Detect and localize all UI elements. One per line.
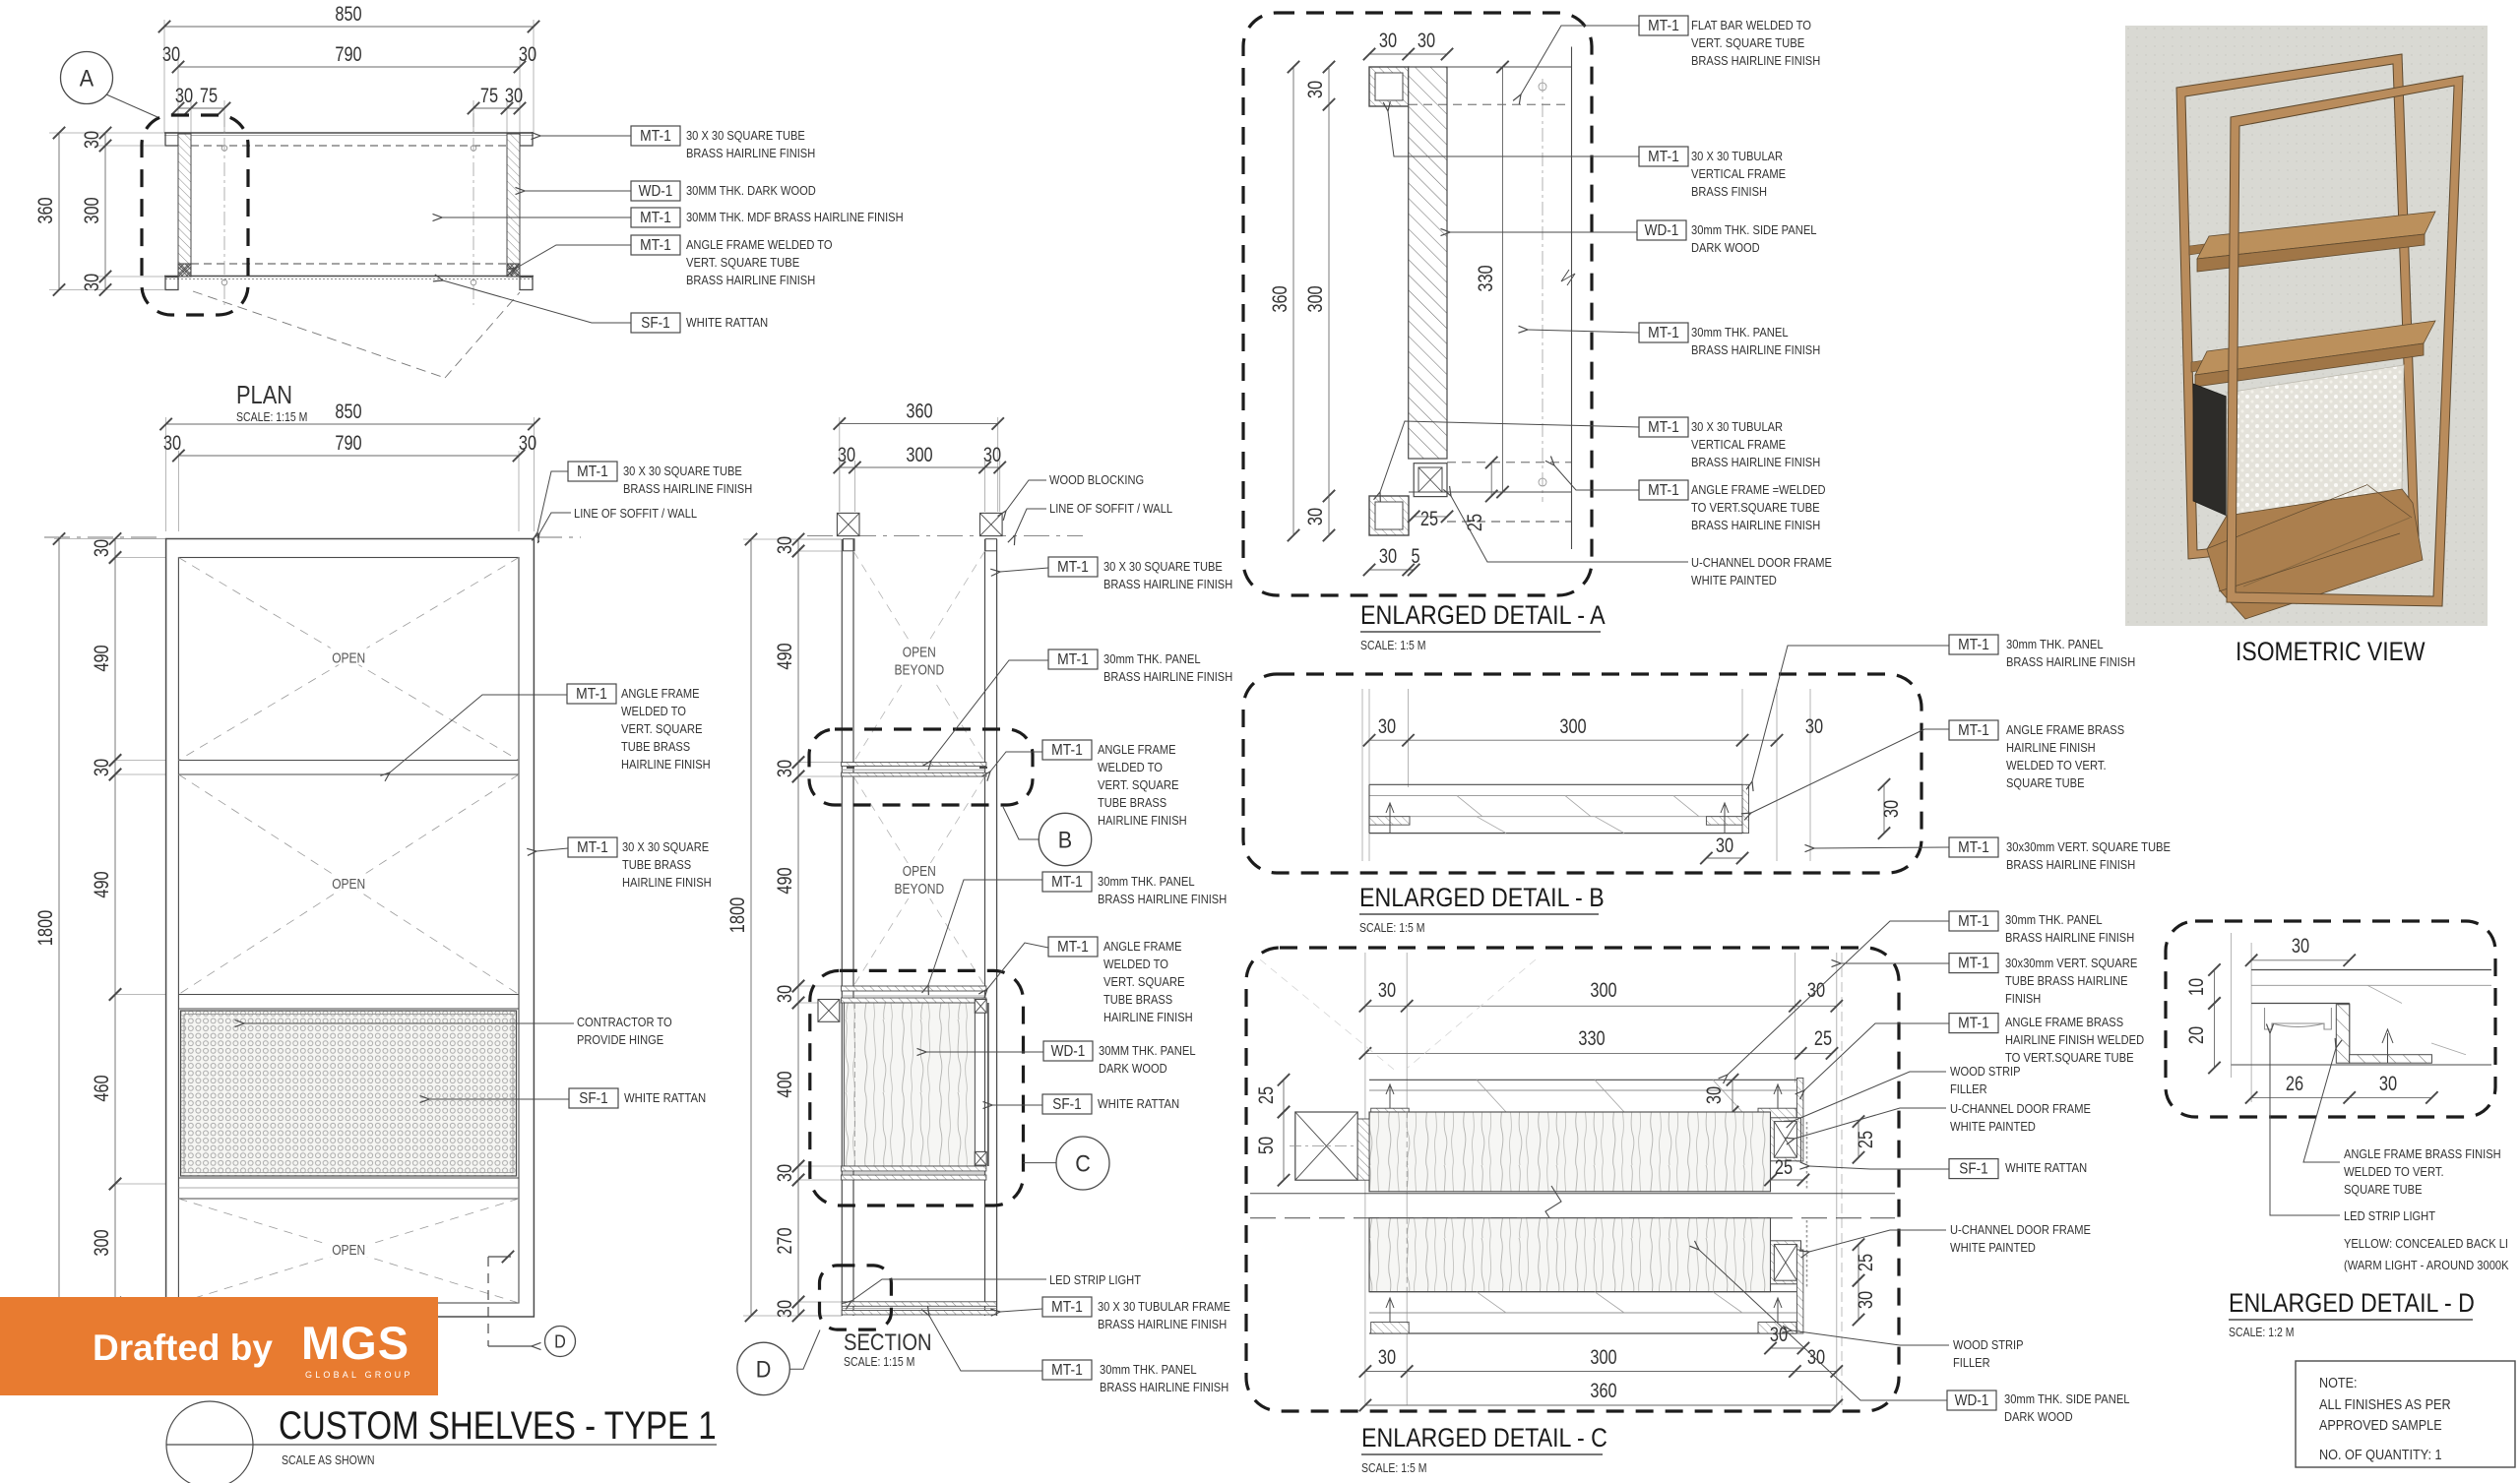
section label MT-1 panel (shelf) xyxy=(1048,649,1098,669)
plan hidden back inner edge xyxy=(178,145,520,147)
svg-text:30mm THK. SIDE PANEL: 30mm THK. SIDE PANEL xyxy=(2004,1391,2130,1406)
C label SF-1 xyxy=(1949,1159,1998,1179)
svg-text:MT-1: MT-1 xyxy=(1057,651,1089,668)
svg-text:300: 300 xyxy=(91,1229,113,1256)
D angle hatched xyxy=(2336,1005,2349,1063)
svg-text:30 X 30 SQUARE TUBE: 30 X 30 SQUARE TUBE xyxy=(686,128,805,143)
iso front frame xyxy=(2227,76,2463,606)
elevation label MT-1 tube mid xyxy=(568,837,617,857)
svg-text:OPEN: OPEN xyxy=(332,1242,365,1259)
svg-text:SCALE: 1:5 M: SCALE: 1:5 M xyxy=(1360,639,1426,652)
section dim 360 xyxy=(840,423,998,425)
svg-text:BEYOND: BEYOND xyxy=(894,881,944,897)
section label MT-1 bottom panel xyxy=(1042,1360,1092,1380)
detail A dim 360 xyxy=(1292,67,1294,535)
svg-text:30MM THK. DARK WOOD: 30MM THK. DARK WOOD xyxy=(686,183,816,198)
svg-text:26: 26 xyxy=(2286,1073,2303,1095)
plan corner tube top-right xyxy=(520,133,533,146)
svg-text:460: 460 xyxy=(91,1075,113,1101)
detail A dim 25 xyxy=(1414,516,1447,518)
A label WD-1 xyxy=(1637,220,1686,240)
svg-text:MT-1: MT-1 xyxy=(1057,939,1089,956)
svg-text:WELDED TO: WELDED TO xyxy=(1103,957,1168,971)
svg-text:30: 30 xyxy=(175,85,193,107)
svg-text:WOOD BLOCKING: WOOD BLOCKING xyxy=(1049,472,1144,487)
svg-text:LED STRIP LIGHT: LED STRIP LIGHT xyxy=(1049,1272,1141,1287)
plan dim 850 xyxy=(164,26,534,28)
svg-text:PROVIDE HINGE: PROVIDE HINGE xyxy=(577,1032,663,1047)
svg-text:HAIRLINE FINISH: HAIRLINE FINISH xyxy=(2006,740,2096,755)
D step xyxy=(2349,1004,2351,1055)
svg-text:YELLOW: CONCEALED BACK LI: YELLOW: CONCEALED BACK LI xyxy=(2344,1236,2508,1251)
svg-text:FINISH: FINISH xyxy=(2005,991,2041,1006)
svg-text:25: 25 xyxy=(1464,514,1486,531)
svg-text:ALL FINISHES AS PER: ALL FINISHES AS PER xyxy=(2319,1396,2451,1413)
C dims right xyxy=(1858,1122,1859,1158)
D dims xyxy=(2251,959,2350,961)
svg-text:50: 50 xyxy=(1255,1137,1278,1154)
svg-text:850: 850 xyxy=(335,3,361,26)
svg-text:WELDED TO VERT.: WELDED TO VERT. xyxy=(2344,1164,2444,1179)
section label SF-1 xyxy=(1042,1094,1092,1114)
svg-text:DARK WOOD: DARK WOOD xyxy=(1691,240,1760,255)
svg-text:TUBE BRASS: TUBE BRASS xyxy=(621,739,690,754)
svg-text:30: 30 xyxy=(1378,979,1396,1002)
A label 30mm panel xyxy=(1639,323,1688,342)
svg-text:SCALE: 1:15 M: SCALE: 1:15 M xyxy=(844,1355,914,1369)
svg-text:BRASS HAIRLINE FINISH: BRASS HAIRLINE FINISH xyxy=(686,146,815,160)
svg-text:BRASS HAIRLINE FINISH: BRASS HAIRLINE FINISH xyxy=(623,481,752,496)
svg-text:30: 30 xyxy=(519,432,536,455)
B right angle strip xyxy=(1706,817,1742,826)
svg-text:LED STRIP LIGHT: LED STRIP LIGHT xyxy=(2344,1208,2435,1223)
svg-text:MT-1: MT-1 xyxy=(1958,839,1989,856)
elevation open zone 3 xyxy=(178,1199,519,1303)
plan label WD-1 dark wood xyxy=(631,181,680,201)
svg-text:ANGLE FRAME: ANGLE FRAME xyxy=(1103,939,1182,954)
plan hinge centerline left xyxy=(223,113,225,305)
elevation label MT-1 angle frame xyxy=(567,684,616,704)
svg-text:ANGLE FRAME BRASS: ANGLE FRAME BRASS xyxy=(2005,1015,2123,1029)
svg-text:OPEN: OPEN xyxy=(903,863,936,880)
C dims bottom xyxy=(1365,1371,1837,1373)
C lower angle vertical xyxy=(1796,1250,1803,1333)
svg-text:BRASS HAIRLINE FINISH: BRASS HAIRLINE FINISH xyxy=(1100,1380,1228,1394)
svg-text:WHITE RATTAN: WHITE RATTAN xyxy=(624,1090,706,1105)
detail A bottom dashed xyxy=(1447,462,1572,463)
C U-channel top xyxy=(1771,1118,1801,1161)
svg-text:490: 490 xyxy=(774,643,796,669)
svg-text:MT-1: MT-1 xyxy=(1051,742,1083,759)
A label angle frame xyxy=(1639,480,1688,500)
svg-text:VERT. SQUARE: VERT. SQUARE xyxy=(1103,974,1185,989)
svg-text:WHITE PAINTED: WHITE PAINTED xyxy=(1950,1119,2036,1134)
section door wood panel WD-1 xyxy=(844,1003,975,1166)
svg-text:30: 30 xyxy=(163,432,181,455)
detail A dim 300 xyxy=(1328,104,1330,496)
svg-text:(WARM LIGHT - AROUND 3000K: (WARM LIGHT - AROUND 3000K xyxy=(2344,1258,2509,1272)
C faint diagonals xyxy=(1260,959,1398,1073)
svg-text:NO. OF QUANTITY: 1: NO. OF QUANTITY: 1 xyxy=(2319,1447,2442,1463)
iso cabinet dark side xyxy=(2193,384,2227,516)
svg-text:790: 790 xyxy=(335,432,361,455)
svg-text:MT-1: MT-1 xyxy=(1648,482,1679,499)
iso side rail mid xyxy=(2191,356,2233,372)
svg-text:LINE OF SOFFIT / WALL: LINE OF SOFFIT / WALL xyxy=(574,506,697,521)
section soffit line xyxy=(807,535,1083,537)
svg-text:A: A xyxy=(80,66,94,93)
svg-text:SF-1: SF-1 xyxy=(1052,1096,1082,1113)
svg-text:360: 360 xyxy=(34,197,57,223)
detail A dims bottom xyxy=(1369,569,1414,571)
svg-text:SF-1: SF-1 xyxy=(1959,1161,1988,1178)
svg-text:FLAT BAR WELDED TO: FLAT BAR WELDED TO xyxy=(1691,18,1811,32)
svg-text:30 X 30 SQUARE TUBE: 30 X 30 SQUARE TUBE xyxy=(1103,559,1223,574)
svg-text:360: 360 xyxy=(1269,285,1291,312)
svg-text:MT-1: MT-1 xyxy=(577,839,608,856)
svg-text:30MM THK. MDF BRASS HAIRLINE F: 30MM THK. MDF BRASS HAIRLINE FINISH xyxy=(686,210,904,224)
B label MT-1 panel xyxy=(1949,635,1998,654)
svg-text:PLAN: PLAN xyxy=(236,380,292,409)
elevation cabinet top xyxy=(178,994,519,996)
plan back rail xyxy=(164,132,534,134)
svg-text:ENLARGED DETAIL - A: ENLARGED DETAIL - A xyxy=(1360,600,1606,630)
svg-text:850: 850 xyxy=(335,401,361,423)
svg-text:300: 300 xyxy=(906,444,932,466)
plan corner tube bottom-left xyxy=(165,278,178,290)
C label MT-1 panel xyxy=(1949,911,1998,931)
C left small angle xyxy=(1357,1119,1369,1180)
svg-text:30: 30 xyxy=(1770,1324,1788,1346)
svg-text:TUBE BRASS HAIRLINE: TUBE BRASS HAIRLINE xyxy=(2005,973,2128,988)
elevation shelf 1 xyxy=(178,760,519,762)
detail A top line xyxy=(1409,66,1572,68)
svg-text:B: B xyxy=(1058,828,1072,854)
svg-text:LINE OF SOFFIT / WALL: LINE OF SOFFIT / WALL xyxy=(1049,501,1172,516)
elevation outer frame xyxy=(166,539,535,1318)
section dim 1800 xyxy=(750,539,752,1316)
C right angle strip top xyxy=(1758,1108,1796,1120)
svg-text:BRASS HAIRLINE FINISH: BRASS HAIRLINE FINISH xyxy=(1691,342,1820,357)
elevation inner frame xyxy=(178,558,519,1304)
section shelf B xyxy=(842,763,986,767)
plan dim 360 xyxy=(58,133,60,290)
elevation label MT-1 tube xyxy=(568,462,617,481)
svg-text:30mm THK. PANEL: 30mm THK. PANEL xyxy=(1691,325,1789,340)
wood blocking right xyxy=(980,513,1003,535)
plan side panel left WD-1 xyxy=(178,134,191,264)
A label tubular vertical frame xyxy=(1639,147,1688,166)
svg-text:MT-1: MT-1 xyxy=(577,463,608,480)
svg-text:OPEN: OPEN xyxy=(332,650,365,667)
D joint marks xyxy=(2367,985,2402,1003)
svg-text:TO VERT.SQUARE TUBE: TO VERT.SQUARE TUBE xyxy=(1691,500,1820,515)
svg-text:25: 25 xyxy=(1255,1086,1278,1104)
svg-text:75: 75 xyxy=(200,85,218,107)
svg-text:VERT. SQUARE: VERT. SQUARE xyxy=(621,721,703,736)
svg-text:MT-1: MT-1 xyxy=(1958,637,1989,653)
svg-text:30: 30 xyxy=(519,43,536,66)
enlarged detail C xyxy=(1246,948,1899,1411)
iso middle shelf xyxy=(2195,321,2435,375)
svg-text:BRASS FINISH: BRASS FINISH xyxy=(1691,184,1767,199)
elevation cabinet bottom xyxy=(178,1177,519,1179)
svg-text:30: 30 xyxy=(983,444,1001,466)
svg-text:30mm THK. PANEL: 30mm THK. PANEL xyxy=(1103,651,1201,666)
detail A panel lines xyxy=(1502,67,1504,492)
svg-text:SQUARE TUBE: SQUARE TUBE xyxy=(2006,775,2085,790)
svg-text:D: D xyxy=(554,1332,566,1352)
section label MT-1 angle cabinet xyxy=(1048,937,1098,957)
svg-text:WD-1: WD-1 xyxy=(1645,222,1679,239)
svg-text:790: 790 xyxy=(335,43,361,66)
elevation label SF-1 xyxy=(569,1088,618,1108)
svg-text:30: 30 xyxy=(1378,1346,1396,1369)
section open beyond 1 xyxy=(853,551,985,763)
D verticals xyxy=(2231,933,2233,1078)
iso top shelf xyxy=(2197,212,2435,259)
svg-text:10: 10 xyxy=(2185,978,2208,996)
svg-text:VERTICAL FRAME: VERTICAL FRAME xyxy=(1691,166,1786,181)
tube caps xyxy=(844,539,855,551)
svg-text:APPROVED SAMPLE: APPROVED SAMPLE xyxy=(2319,1417,2442,1434)
B left angle strip xyxy=(1369,817,1410,826)
wood blocking left xyxy=(837,513,859,535)
svg-text:SF-1: SF-1 xyxy=(641,315,670,332)
svg-text:MT-1: MT-1 xyxy=(1648,419,1679,436)
elevation left dim chain xyxy=(54,539,166,1318)
plan view xyxy=(49,20,534,290)
svg-text:30: 30 xyxy=(774,985,796,1003)
svg-text:1800: 1800 xyxy=(726,897,749,933)
svg-text:330: 330 xyxy=(1475,265,1497,291)
svg-text:MT-1: MT-1 xyxy=(640,128,671,145)
svg-text:MT-1: MT-1 xyxy=(1051,874,1083,891)
enlarged detail B xyxy=(1243,674,1921,873)
svg-text:30: 30 xyxy=(1379,30,1397,52)
svg-text:VERTICAL FRAME: VERTICAL FRAME xyxy=(1691,437,1786,452)
section door U-channel top xyxy=(975,1000,986,1014)
svg-text:SQUARE TUBE: SQUARE TUBE xyxy=(2344,1182,2423,1197)
B dims xyxy=(1369,739,1777,741)
svg-text:ENLARGED DETAIL - D: ENLARGED DETAIL - D xyxy=(2229,1288,2475,1318)
drafted by banner xyxy=(0,1297,438,1395)
svg-text:25: 25 xyxy=(1420,508,1438,530)
section view xyxy=(840,417,1000,512)
svg-text:VERT. SQUARE TUBE: VERT. SQUARE TUBE xyxy=(1691,35,1804,50)
svg-text:MT-1: MT-1 xyxy=(1958,1016,1989,1032)
C label MT-1 angle frame xyxy=(1949,1014,1998,1033)
svg-text:25: 25 xyxy=(1855,1254,1877,1271)
svg-text:CONTRACTOR TO: CONTRACTOR TO xyxy=(577,1015,672,1029)
B label MT-1 angle xyxy=(1949,720,1998,740)
elevation front view xyxy=(166,417,535,531)
svg-text:HAIRLINE FINISH WELDED: HAIRLINE FINISH WELDED xyxy=(2005,1032,2144,1047)
callout box C xyxy=(810,970,1024,1205)
plan hinge centerline right xyxy=(472,113,474,305)
svg-text:MT-1: MT-1 xyxy=(1958,722,1989,739)
plan label MT-1 angle frame xyxy=(631,235,680,255)
iso back frame xyxy=(2176,54,2419,559)
svg-text:WHITE RATTAN: WHITE RATTAN xyxy=(686,315,768,330)
B joints xyxy=(1457,796,1482,817)
iso bottom shelf and base xyxy=(2207,489,2423,619)
svg-text:SCALE: 1:5 M: SCALE: 1:5 M xyxy=(1361,1461,1427,1475)
svg-text:MT-1: MT-1 xyxy=(1648,325,1679,341)
D top lines xyxy=(2251,969,2491,971)
svg-text:MT-1: MT-1 xyxy=(640,237,671,254)
svg-text:GLOBAL GROUP: GLOBAL GROUP xyxy=(305,1370,413,1380)
svg-text:CUSTOM SHELVES - TYPE 1: CUSTOM SHELVES - TYPE 1 xyxy=(279,1404,717,1448)
svg-text:WELDED TO: WELDED TO xyxy=(1098,760,1163,774)
enlarged detail A xyxy=(1243,13,1592,595)
detail A dims top xyxy=(1369,53,1447,55)
detail A side panel WD-1 xyxy=(1409,67,1447,459)
svg-text:TUBE BRASS: TUBE BRASS xyxy=(622,857,691,872)
svg-text:300: 300 xyxy=(81,197,103,223)
svg-text:30: 30 xyxy=(1417,30,1435,52)
detail A U-channel xyxy=(1414,463,1447,497)
B pins xyxy=(1386,803,1394,833)
plan hidden front inner edge xyxy=(191,263,507,265)
svg-text:BRASS HAIRLINE FINISH: BRASS HAIRLINE FINISH xyxy=(1103,669,1232,684)
svg-text:30 X 30 TUBULAR: 30 X 30 TUBULAR xyxy=(1691,149,1783,163)
callout circle D section xyxy=(737,1342,789,1394)
svg-text:MT-1: MT-1 xyxy=(1648,18,1679,34)
iso side rail top xyxy=(2189,240,2235,255)
svg-text:30mm THK. SIDE PANEL: 30mm THK. SIDE PANEL xyxy=(1691,222,1817,237)
svg-text:30: 30 xyxy=(838,444,855,466)
svg-text:OPEN: OPEN xyxy=(332,876,365,893)
svg-text:30mm THK. PANEL: 30mm THK. PANEL xyxy=(2006,637,2104,651)
svg-text:30: 30 xyxy=(1855,1291,1877,1309)
svg-text:30mm THK. PANEL: 30mm THK. PANEL xyxy=(1100,1362,1197,1377)
C bottom panel xyxy=(1369,1291,1796,1293)
svg-text:TO VERT.SQUARE TUBE: TO VERT.SQUARE TUBE xyxy=(2005,1050,2134,1065)
C blocking square xyxy=(1295,1112,1357,1180)
svg-text:30: 30 xyxy=(774,760,796,777)
elevation dim 850 xyxy=(166,423,535,425)
svg-text:25: 25 xyxy=(1814,1027,1832,1050)
detail A top tube xyxy=(1369,67,1409,106)
svg-text:25: 25 xyxy=(1775,1156,1793,1179)
C top panel xyxy=(1369,1079,1796,1081)
B shelf left closure xyxy=(1368,784,1370,833)
D pin xyxy=(2382,1029,2393,1063)
section label MT-1 angle frame shelf xyxy=(1042,740,1092,760)
svg-text:30: 30 xyxy=(162,43,180,66)
section rattan layer SF-1 xyxy=(987,1003,989,1166)
svg-text:30: 30 xyxy=(1304,81,1327,98)
svg-text:ANGLE FRAME WELDED TO: ANGLE FRAME WELDED TO xyxy=(686,237,833,252)
svg-text:MT-1: MT-1 xyxy=(1648,149,1679,165)
svg-text:30: 30 xyxy=(774,536,796,554)
elevation dim 1800 xyxy=(58,539,60,1318)
C dims top xyxy=(1365,1005,1837,1007)
svg-text:FILLER: FILLER xyxy=(1950,1081,1987,1096)
B shelf body xyxy=(1369,783,1742,785)
svg-text:FILLER: FILLER xyxy=(1953,1355,1990,1370)
C door wood top xyxy=(1369,1112,1771,1192)
svg-text:30: 30 xyxy=(2292,935,2309,958)
svg-text:WHITE RATTAN: WHITE RATTAN xyxy=(1098,1096,1179,1111)
svg-text:HAIRLINE FINISH: HAIRLINE FINISH xyxy=(622,875,712,890)
B right tube lines xyxy=(1776,689,1778,861)
svg-text:ANGLE FRAME =WELDED: ANGLE FRAME =WELDED xyxy=(1691,482,1826,497)
svg-text:Drafted by: Drafted by xyxy=(93,1328,273,1368)
svg-text:30: 30 xyxy=(1378,715,1396,738)
plan angle frame right xyxy=(507,264,520,277)
elevation open zone 2 xyxy=(178,774,519,995)
svg-text:SECTION: SECTION xyxy=(844,1329,932,1356)
svg-text:MT-1: MT-1 xyxy=(1051,1362,1083,1379)
svg-text:BRASS HAIRLINE FINISH: BRASS HAIRLINE FINISH xyxy=(1103,577,1232,591)
svg-text:BRASS HAIRLINE FINISH: BRASS HAIRLINE FINISH xyxy=(2006,654,2135,669)
section label MT-1 tube xyxy=(1048,557,1098,577)
svg-text:WOOD STRIP: WOOD STRIP xyxy=(1953,1337,2024,1352)
svg-text:BRASS HAIRLINE FINISH: BRASS HAIRLINE FINISH xyxy=(1691,518,1820,532)
svg-text:WD-1: WD-1 xyxy=(1955,1392,1989,1409)
section label MT-1 panel cabinet xyxy=(1042,872,1092,892)
plan corner tube top-left xyxy=(165,133,178,146)
svg-text:30MM THK. PANEL: 30MM THK. PANEL xyxy=(1099,1043,1196,1058)
plan side panel right WD-1 xyxy=(507,134,520,264)
line of soffit xyxy=(44,536,163,538)
detail A dim 25 v xyxy=(1490,463,1492,496)
iso background xyxy=(2125,26,2488,626)
section dim 30/300/30 xyxy=(840,466,1000,468)
C U-channel bottom xyxy=(1771,1241,1801,1284)
svg-text:30: 30 xyxy=(1880,800,1903,818)
B extension verticals xyxy=(1408,689,1410,787)
detail A break mark xyxy=(1561,270,1575,285)
callout box B xyxy=(809,729,1033,805)
svg-text:SCALE: 1:2 M: SCALE: 1:2 M xyxy=(2229,1326,2295,1339)
C right angle strip bottom xyxy=(1758,1323,1796,1334)
svg-text:360: 360 xyxy=(1590,1380,1616,1402)
section open beyond 2 xyxy=(853,776,985,986)
svg-text:BRASS HAIRLINE FINISH: BRASS HAIRLINE FINISH xyxy=(1098,892,1227,906)
svg-text:30: 30 xyxy=(774,1164,796,1182)
svg-text:490: 490 xyxy=(774,867,796,894)
B right angle vertical xyxy=(1742,784,1749,833)
svg-text:30 X 30 SQUARE TUBE: 30 X 30 SQUARE TUBE xyxy=(623,463,742,478)
callout circle B xyxy=(1039,813,1091,865)
plan dim 30/300/30 xyxy=(104,133,106,290)
svg-text:ISOMETRIC VIEW: ISOMETRIC VIEW xyxy=(2236,637,2425,666)
svg-text:MT-1: MT-1 xyxy=(1057,559,1089,576)
svg-text:HAIRLINE FINISH: HAIRLINE FINISH xyxy=(621,757,711,772)
svg-text:VERT. SQUARE TUBE: VERT. SQUARE TUBE xyxy=(686,255,799,270)
C door wood bottom xyxy=(1369,1218,1771,1292)
svg-text:30: 30 xyxy=(505,85,523,107)
svg-text:MT-1: MT-1 xyxy=(576,686,607,703)
C rattan strip top xyxy=(1806,1122,1808,1189)
svg-text:WELDED TO: WELDED TO xyxy=(621,704,686,718)
svg-text:WHITE PAINTED: WHITE PAINTED xyxy=(1691,573,1777,587)
callout circle C xyxy=(1056,1137,1109,1190)
svg-text:300: 300 xyxy=(1559,715,1586,738)
svg-text:30x30mm VERT. SQUARE: 30x30mm VERT. SQUARE xyxy=(2005,956,2137,970)
svg-text:VERT. SQUARE: VERT. SQUARE xyxy=(1098,777,1179,792)
svg-text:ENLARGED DETAIL - B: ENLARGED DETAIL - B xyxy=(1359,883,1605,912)
C wall verticals xyxy=(1364,953,1366,1405)
svg-text:30 X 30 SQUARE: 30 X 30 SQUARE xyxy=(622,839,709,854)
plan dim 75/30 right xyxy=(473,107,520,109)
C break lines xyxy=(1250,1193,1895,1195)
section label MT-1 tubular frame xyxy=(1042,1297,1092,1317)
svg-text:30: 30 xyxy=(1805,715,1823,738)
